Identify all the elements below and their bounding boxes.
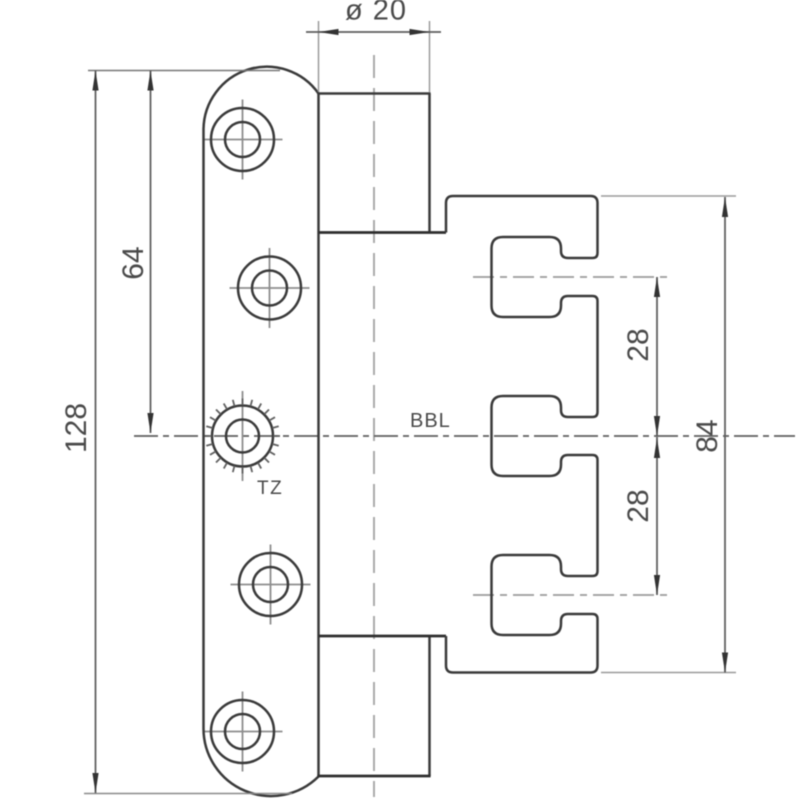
hole 3 crosshair — [242, 391, 244, 481]
svg-text:ø 20: ø 20 — [345, 0, 407, 27]
screw hole 1 — [211, 108, 274, 171]
barrel top edge — [317, 92, 430, 95]
barrel vertical centerline — [373, 55, 375, 797]
frame plate outline with three slots — [446, 196, 598, 673]
screw hole 5 — [211, 700, 274, 763]
slot 1 centerline — [473, 276, 668, 278]
screw hole 3 with knurled ring TZ — [212, 406, 273, 467]
knuckle divider bottom — [319, 635, 447, 638]
hole 4 crosshair — [231, 545, 311, 625]
svg-text:84: 84 — [691, 419, 724, 452]
barrel right edge top knuckle — [428, 94, 431, 233]
screw hole 2 — [238, 257, 301, 320]
extension line dia20 right — [429, 21, 431, 92]
extension line 84 bottom — [601, 672, 736, 674]
hinge leaf outline — [203, 67, 318, 796]
hole 2 crosshair — [230, 248, 310, 328]
svg-text:28: 28 — [622, 328, 655, 361]
dimension line dia20 — [306, 31, 441, 33]
knuckle divider top — [319, 231, 447, 234]
main horizontal centerline BBL — [134, 435, 795, 437]
dimension line 28 upper — [656, 277, 658, 436]
hole 1 crosshair — [203, 100, 283, 180]
dimension line 64 — [150, 71, 152, 434]
screw hole 4 — [239, 553, 302, 616]
barrel left edge — [317, 94, 320, 777]
hole 5 crosshair — [203, 692, 283, 772]
dimension line 84 — [724, 197, 726, 673]
slot 3 centerline — [473, 594, 668, 596]
svg-text:TZ: TZ — [257, 478, 283, 499]
extension line dia20 left — [318, 21, 320, 92]
svg-text:BBL: BBL — [410, 410, 451, 432]
dimension line 28 lower — [656, 437, 658, 595]
dimension line 128 — [95, 71, 97, 794]
extension line bottom (for 128) — [84, 793, 292, 795]
hole 3 knurl ticks — [205, 399, 280, 474]
extension line 84 top — [601, 195, 736, 197]
extension line top (for 64 and 128) — [88, 70, 280, 72]
svg-text:64: 64 — [117, 246, 150, 279]
barrel right edge bottom knuckle — [428, 636, 431, 776]
barrel bottom edge — [317, 775, 430, 778]
svg-text:28: 28 — [622, 489, 655, 522]
svg-text:128: 128 — [60, 403, 93, 453]
